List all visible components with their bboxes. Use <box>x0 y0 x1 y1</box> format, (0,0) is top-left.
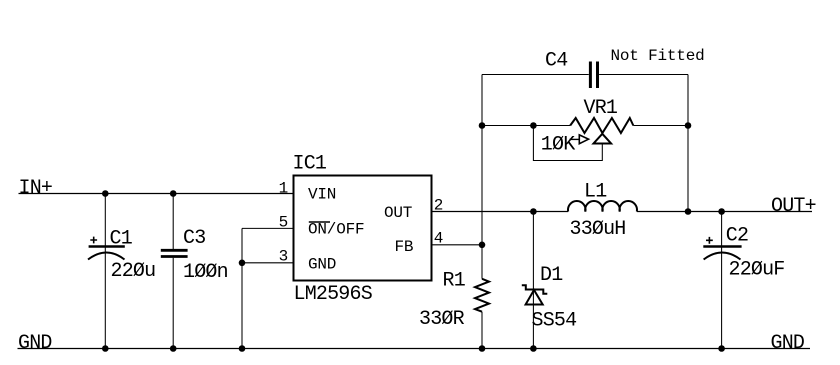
pin name ON overline <box>309 221 330 223</box>
junction IN+/C3 <box>170 190 177 197</box>
resistor R1 zigzag <box>475 279 489 312</box>
capacitor C2 plate <box>703 245 741 247</box>
svg-text:33ØR: 33ØR <box>419 308 465 331</box>
potentiometer VR1 arrow head <box>579 135 588 144</box>
wire FB <box>432 244 483 246</box>
svg-text:1ØK: 1ØK <box>541 133 575 156</box>
wire C2 vertical <box>721 212 723 349</box>
junction GND/C1 <box>102 345 109 352</box>
diode D1 triangle <box>526 290 543 305</box>
IC U1 : IC1 LM2596S box <box>294 176 432 281</box>
wire C4 horizontal <box>482 74 688 76</box>
junction GND/C2 <box>718 345 725 352</box>
junction VR1 right <box>685 122 692 129</box>
capacitor C2 plus sign <box>706 237 713 244</box>
capacitor C3 plates <box>161 250 188 256</box>
potentiometer VR1 zigzag <box>570 118 633 133</box>
junction VR1 left <box>479 122 486 129</box>
svg-text:IC1: IC1 <box>293 153 327 176</box>
wire pin3 <box>242 262 294 264</box>
svg-text:ON/OFF: ON/OFF <box>308 221 364 239</box>
capacitor C1 plus sign <box>90 237 97 244</box>
svg-text:22Øu: 22Øu <box>111 260 156 283</box>
wire R1 vertical <box>481 245 483 349</box>
svg-text:GND: GND <box>308 256 336 274</box>
svg-text:33ØuH: 33ØuH <box>570 218 626 241</box>
svg-text:1: 1 <box>279 180 288 198</box>
capacitor C4 plates <box>590 62 597 89</box>
svg-text:FB: FB <box>395 238 414 256</box>
svg-text:VR1: VR1 <box>584 97 618 120</box>
wire FB to C4 vertical <box>481 75 483 245</box>
svg-text:C1: C1 <box>110 227 133 250</box>
svg-text:IN+: IN+ <box>19 177 53 200</box>
wire D1 vertical <box>532 212 534 349</box>
junction FB/R1 <box>479 242 486 249</box>
svg-text:OUT: OUT <box>384 204 412 222</box>
svg-text:4: 4 <box>434 230 443 248</box>
wire GND rail <box>18 348 811 350</box>
svg-text:L1: L1 <box>584 181 607 204</box>
wire OUT rail <box>432 211 813 213</box>
wire VR1 rail <box>482 125 688 127</box>
junction OUT/VR1 <box>685 208 692 215</box>
junction IN+/C1 <box>102 190 109 197</box>
svg-text:LM2596S: LM2596S <box>294 283 373 306</box>
wire C3 vertical <box>172 194 174 349</box>
junction GND/R1 <box>479 345 486 352</box>
capacitor C1 plate <box>89 245 125 247</box>
junction GND/D1 <box>530 345 537 352</box>
svg-text:GND: GND <box>18 332 52 355</box>
potentiometer VR1 wiper triangle <box>594 134 612 144</box>
wire gnd vertical <box>241 228 243 348</box>
junction OUT/C2 <box>718 208 725 215</box>
junction VR1 wiper <box>530 122 537 129</box>
junction pin3 <box>239 260 246 267</box>
junction GND/IC <box>239 345 246 352</box>
wire VR1 wiper loop <box>533 126 602 161</box>
svg-text:1ØØn: 1ØØn <box>183 261 228 284</box>
svg-text:R1: R1 <box>443 270 466 293</box>
junction GND/C3 <box>170 345 177 352</box>
svg-text:2: 2 <box>434 197 443 215</box>
capacitor C2 arc plate <box>704 253 741 260</box>
potentiometer VR1 arrow shaft <box>570 138 580 140</box>
svg-text:SS54: SS54 <box>532 310 577 333</box>
svg-text:C3: C3 <box>183 227 205 250</box>
svg-text:C2: C2 <box>726 225 748 248</box>
wire C4 right vertical <box>687 75 689 212</box>
svg-text:3: 3 <box>279 248 288 266</box>
junction OUT/D1 <box>530 208 537 215</box>
svg-text:5: 5 <box>279 213 288 231</box>
svg-text:D1: D1 <box>540 264 563 287</box>
wire pin5 <box>242 227 294 229</box>
capacitor C1 arc plate <box>88 253 125 260</box>
svg-text:C4: C4 <box>545 50 567 73</box>
svg-text:VIN: VIN <box>308 186 336 204</box>
svg-text:22ØuF: 22ØuF <box>729 259 785 282</box>
svg-text:OUT+: OUT+ <box>771 195 816 218</box>
diode D1 schottky bar <box>522 285 548 294</box>
wire IN+ rail <box>19 193 294 195</box>
wire C1 vertical <box>104 194 106 349</box>
svg-text:GND: GND <box>771 332 805 355</box>
svg-text:Not Fitted: Not Fitted <box>611 47 705 65</box>
inductor L1 humps <box>568 201 637 211</box>
